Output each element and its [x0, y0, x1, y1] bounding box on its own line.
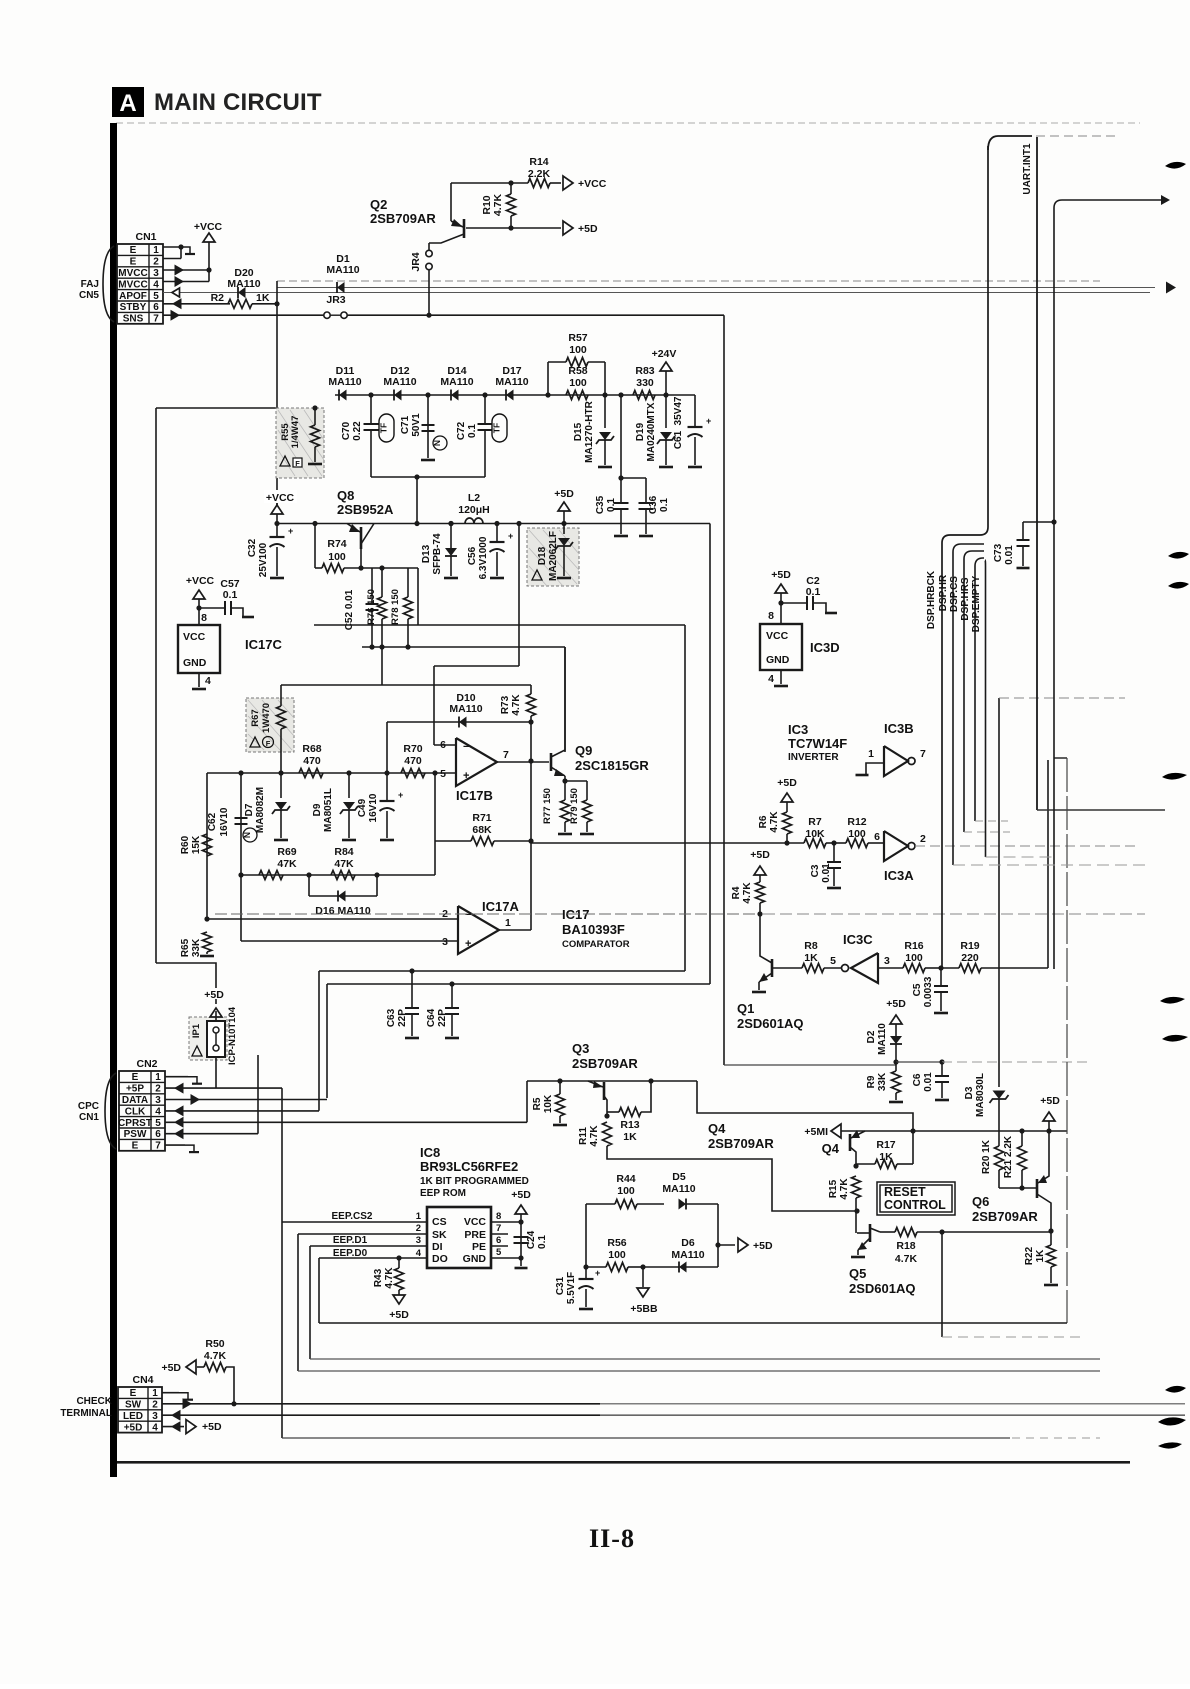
wire EEP.CS2 riser: [281, 1088, 283, 1438]
svg-text:4.7K: 4.7K: [511, 694, 522, 716]
marking TF C72: [492, 414, 507, 442]
power +5D right of D6: [718, 1244, 735, 1246]
svg-text:C31: C31: [555, 1276, 566, 1295]
svg-text:C70: C70: [341, 421, 352, 440]
svg-text:+: +: [595, 1268, 600, 1278]
svg-text:2: 2: [920, 833, 926, 845]
wire IC17 to Q1 base line: [318, 970, 320, 972]
svg-text:R17: R17: [876, 1139, 895, 1151]
svg-text:IC3D: IC3D: [810, 640, 840, 655]
svg-text:MA110: MA110: [326, 264, 359, 276]
power +5D arrow at Q2: [563, 221, 573, 235]
svg-text:C62: C62: [207, 812, 218, 831]
svg-text:CN1: CN1: [79, 1112, 99, 1123]
svg-text:EEP.D1: EEP.D1: [333, 1235, 368, 1246]
svg-text:DSP.EMPTY: DSP.EMPTY: [971, 575, 982, 632]
svg-text:3: 3: [416, 1235, 421, 1246]
svg-text:IC17B: IC17B: [456, 788, 493, 803]
svg-text:1: 1: [416, 1211, 422, 1222]
svg-text:MA8051L: MA8051L: [323, 788, 334, 832]
wire Q1 base line: [772, 967, 802, 969]
svg-text:R22: R22: [1024, 1246, 1035, 1265]
wire pin6 line: [434, 744, 456, 746]
svg-text:2: 2: [155, 1084, 161, 1095]
connector CN4: [118, 1387, 162, 1433]
bus DSP.HR: [953, 544, 984, 865]
wire R18 node down: [941, 1232, 943, 1337]
svg-text:R9: R9: [866, 1075, 877, 1088]
wire DO riser: [318, 1258, 320, 1323]
svg-text:3: 3: [442, 936, 448, 948]
svg-text:2SB709AR: 2SB709AR: [708, 1136, 774, 1151]
svg-text:R84: R84: [334, 846, 353, 858]
wire R19 riser: [1047, 760, 1049, 968]
svg-text:D6: D6: [681, 1237, 695, 1249]
wire UART.INT1 vertical: [1036, 137, 1038, 810]
wire Q8 main rail: [277, 523, 710, 525]
svg-text:R6: R6: [758, 815, 769, 828]
wire CN2 pin2 +5P: [215, 1057, 217, 1088]
svg-text:1: 1: [505, 917, 511, 929]
svg-text:PE: PE: [472, 1241, 486, 1253]
svg-text:0.1: 0.1: [659, 498, 670, 512]
inverter IC3A: [884, 831, 908, 861]
svg-text:EEP ROM: EEP ROM: [420, 1188, 466, 1199]
svg-text:R77 150: R77 150: [542, 788, 553, 824]
svg-text:+5D: +5D: [202, 1421, 222, 1433]
svg-text:C32: C32: [247, 538, 258, 557]
svg-text:R18: R18: [896, 1240, 915, 1252]
svg-text:+5P: +5P: [126, 1084, 144, 1095]
wire CN2 pin3 DATA: [165, 1099, 327, 1101]
svg-text:2SD601AQ: 2SD601AQ: [849, 1281, 915, 1296]
svg-text:L2: L2: [468, 492, 480, 504]
svg-text:DSP.CS: DSP.CS: [949, 576, 960, 612]
wire INT riser 2: [1054, 200, 1165, 969]
svg-text:1: 1: [152, 1388, 158, 1399]
node IC17A pin2: [204, 916, 209, 921]
svg-text:2: 2: [153, 257, 159, 268]
wire CPRST riser to Q3 rail: [526, 1081, 528, 1122]
diode D20: [238, 287, 246, 298]
wire DO long line: [319, 1322, 1067, 1324]
wire C62 vertical: [240, 773, 242, 875]
svg-text:R5: R5: [532, 1097, 543, 1110]
svg-text:SK: SK: [432, 1229, 447, 1241]
svg-text:4: 4: [205, 675, 211, 687]
svg-text:5: 5: [830, 955, 836, 967]
svg-text:50V1: 50V1: [411, 413, 422, 437]
svg-text:+VCC: +VCC: [266, 492, 295, 504]
svg-text:2SD601AQ: 2SD601AQ: [737, 1016, 803, 1031]
svg-text:COMPARATOR: COMPARATOR: [562, 939, 630, 950]
svg-text:10K: 10K: [543, 1094, 554, 1113]
svg-text:CS: CS: [432, 1216, 447, 1228]
svg-text:R73: R73: [500, 695, 511, 714]
svg-text:APOF: APOF: [119, 291, 147, 302]
svg-text:IC3A: IC3A: [884, 868, 914, 883]
wire inner box right edge: [684, 625, 686, 971]
svg-text:C36: C36: [648, 495, 659, 514]
wire CPRST dashed long line: [215, 913, 757, 915]
svg-text:10K: 10K: [805, 828, 825, 840]
svg-text:C24: C24: [526, 1230, 537, 1249]
wire SNS vertical to box: [723, 315, 725, 1065]
wire box left vertical: [155, 408, 157, 963]
svg-text:+24V: +24V: [652, 348, 677, 360]
svg-text:4: 4: [768, 673, 774, 685]
wire Q6 collector to R22 node: [1050, 1231, 1052, 1232]
resistor R67 1W470 protected: [246, 698, 294, 752]
svg-text:R8: R8: [804, 940, 818, 952]
scan mark 5: [1160, 997, 1185, 1004]
svg-text:TF: TF: [379, 423, 389, 433]
wire outer box right edge: [709, 524, 711, 985]
svg-text:DI: DI: [432, 1241, 443, 1253]
svg-text:100: 100: [328, 551, 346, 563]
svg-text:+5D: +5D: [777, 777, 797, 789]
svg-text:C71: C71: [400, 415, 411, 434]
svg-text:+5D: +5D: [771, 569, 791, 581]
resistor R78 150: [407, 568, 409, 597]
svg-text:CN1: CN1: [135, 231, 156, 243]
svg-text:MA8030L: MA8030L: [975, 1073, 986, 1117]
svg-text:D15: D15: [573, 422, 584, 441]
wire box right edge vertical: [1066, 758, 1068, 1323]
svg-text:R2: R2: [211, 292, 225, 304]
wire R69 R84 rail: [241, 874, 435, 876]
svg-text:6.3V1000: 6.3V1000: [478, 536, 489, 579]
wire C52 R76 R78 bottom rail: [362, 646, 565, 648]
wire CN1 pin4 MVCC: [163, 281, 209, 283]
svg-text:+VCC: +VCC: [194, 221, 223, 233]
wire box bottom left to IP1 feed: [156, 963, 216, 1004]
svg-text:E: E: [132, 1141, 139, 1152]
svg-text:1K: 1K: [256, 292, 270, 304]
svg-text:MA110: MA110: [662, 1183, 695, 1195]
svg-text:R43: R43: [373, 1268, 384, 1287]
svg-text:R14: R14: [529, 156, 548, 168]
svg-text:CPRST: CPRST: [118, 1118, 152, 1129]
pin 4 IC17C: [198, 673, 200, 687]
power +VCC arrow: [563, 176, 573, 190]
svg-text:R78 150: R78 150: [390, 589, 401, 625]
svg-text:100: 100: [569, 377, 587, 389]
svg-text:0.01: 0.01: [923, 1072, 934, 1092]
svg-text:+5D: +5D: [753, 1240, 773, 1252]
svg-text:DSP.HRS: DSP.HRS: [960, 577, 971, 620]
left page border bar: [110, 123, 117, 1477]
svg-text:C3: C3: [810, 864, 821, 877]
svg-text:2: 2: [152, 1400, 158, 1411]
svg-text:+5D: +5D: [554, 488, 574, 500]
svg-text:C35: C35: [595, 495, 606, 514]
svg-text:MA110: MA110: [877, 1023, 888, 1055]
svg-text:Q4: Q4: [822, 1141, 840, 1156]
svg-text:PSW: PSW: [124, 1129, 147, 1140]
svg-text:0.22: 0.22: [352, 421, 363, 441]
svg-text:D7: D7: [244, 803, 255, 816]
scan mark 2: [1168, 552, 1189, 559]
wire UART.INT1 bottom out: [1037, 809, 1165, 811]
wire DSP.EMPTY out: [986, 856, 1055, 858]
svg-text:R57: R57: [568, 332, 587, 344]
svg-text:6: 6: [155, 1129, 161, 1140]
svg-text:R50: R50: [205, 1338, 224, 1350]
svg-text:470: 470: [303, 755, 321, 767]
arrow right edge D1 net: [1166, 282, 1176, 294]
wire C35 C36 branch: [621, 477, 646, 479]
svg-text:SW: SW: [125, 1400, 142, 1411]
svg-text:VCC: VCC: [464, 1216, 487, 1228]
svg-text:CN5: CN5: [79, 290, 99, 301]
svg-text:Q9: Q9: [575, 743, 592, 758]
svg-text:+: +: [288, 526, 293, 536]
svg-text:MA110: MA110: [227, 278, 260, 290]
svg-text:0.1: 0.1: [537, 1235, 548, 1249]
svg-text:MA110: MA110: [383, 376, 416, 388]
svg-text:1: 1: [868, 748, 874, 760]
connector CN2: [119, 1071, 165, 1151]
svg-text:BR93LC56RFE2: BR93LC56RFE2: [420, 1159, 518, 1174]
svg-text:7: 7: [153, 314, 159, 325]
svg-text:E: E: [130, 245, 137, 256]
svg-text:+5D: +5D: [511, 1189, 531, 1201]
svg-text:1K BIT PROGRAMMED: 1K BIT PROGRAMMED: [420, 1176, 529, 1187]
svg-text:INVERTER: INVERTER: [788, 752, 839, 763]
svg-text:R76 150: R76 150: [366, 589, 377, 625]
svg-text:JR4: JR4: [410, 252, 422, 271]
wire CN1 pin3 MVCC: [163, 269, 209, 271]
svg-text:+: +: [706, 416, 711, 426]
diode D16 MA110 loop: [308, 875, 310, 896]
svg-text:8: 8: [496, 1211, 501, 1222]
wire CN4 pin2 SW: [162, 1403, 600, 1405]
svg-text:25V100: 25V100: [258, 542, 269, 577]
svg-text:R68: R68: [302, 743, 321, 755]
svg-text:PRE: PRE: [464, 1229, 486, 1241]
svg-text:470: 470: [404, 755, 422, 767]
node C72: [482, 392, 487, 397]
diode D1: [337, 282, 345, 293]
wire DSP.CS out: [964, 831, 1010, 833]
svg-text:0.1: 0.1: [223, 589, 238, 601]
svg-text:CLK: CLK: [125, 1106, 146, 1117]
svg-text:N: N: [242, 832, 252, 838]
svg-text:R83: R83: [635, 365, 654, 377]
resistor R55 1/4W47 protected: [276, 408, 324, 478]
svg-text:+5D: +5D: [204, 989, 224, 1001]
wire outer box bottom edge: [327, 983, 710, 985]
svg-text:+: +: [465, 938, 471, 950]
svg-text:R16: R16: [904, 940, 923, 952]
svg-text:4: 4: [155, 1106, 161, 1117]
svg-text:JR3: JR3: [326, 294, 345, 306]
wire CN2 pin5 CPRST: [165, 1121, 527, 1123]
svg-text:7: 7: [503, 749, 509, 761]
svg-text:LED: LED: [123, 1411, 143, 1422]
diode D12: [394, 390, 402, 401]
svg-text:D16 MA110: D16 MA110: [315, 905, 371, 917]
svg-text:R79 150: R79 150: [569, 788, 580, 824]
ic IC8 box: [427, 1207, 491, 1268]
svg-text:MA110: MA110: [440, 376, 473, 388]
wire CN1 pin2 E: [163, 258, 181, 260]
wire Q3 line A to Q4: [697, 1081, 913, 1164]
wire Q3 rail: [527, 1080, 697, 1082]
svg-text:C56: C56: [467, 546, 478, 565]
svg-text:220: 220: [961, 952, 979, 964]
svg-text:2SB709AR: 2SB709AR: [572, 1056, 638, 1071]
svg-text:4.7K: 4.7K: [742, 882, 753, 904]
svg-text:GND: GND: [766, 654, 790, 666]
node C70: [368, 392, 373, 397]
wire inner box bottom edge: [319, 970, 685, 972]
wire CN1 pin1 E: [163, 246, 181, 248]
svg-text:2SB709AR: 2SB709AR: [972, 1209, 1038, 1224]
diode D11: [339, 390, 347, 401]
svg-text:+5D: +5D: [750, 849, 770, 861]
svg-text:IC17C: IC17C: [245, 637, 282, 652]
svg-text:IC17A: IC17A: [482, 899, 519, 914]
svg-text:4.7K: 4.7K: [769, 811, 780, 833]
svg-text:CPC: CPC: [78, 1101, 99, 1112]
bus DSP.HRBCK: [942, 146, 988, 969]
svg-text:CN2: CN2: [136, 1058, 157, 1070]
scan mark 4: [1162, 773, 1187, 780]
svg-text:UART.INT1: UART.INT1: [1022, 143, 1033, 195]
svg-text:1K: 1K: [1035, 1249, 1046, 1263]
wire R84 to R71 node: [434, 841, 436, 875]
svg-text:R60: R60: [180, 835, 191, 854]
svg-text:MA110: MA110: [671, 1249, 704, 1261]
svg-text:+5BB: +5BB: [630, 1303, 658, 1315]
node C35 branch: [618, 392, 623, 397]
svg-text:6: 6: [496, 1235, 501, 1246]
svg-text:CONTROL: CONTROL: [884, 1198, 946, 1212]
svg-text:DSP.HRBCK: DSP.HRBCK: [926, 570, 937, 629]
svg-text:D18: D18: [537, 546, 548, 565]
svg-text:15K: 15K: [191, 835, 202, 854]
svg-text:8: 8: [201, 612, 207, 624]
wire +5MI rail: [839, 1130, 1067, 1132]
svg-text:4.7K: 4.7K: [839, 1178, 850, 1200]
svg-text:1: 1: [155, 1072, 161, 1083]
svg-text:5: 5: [440, 768, 446, 780]
svg-text:Q3: Q3: [572, 1041, 589, 1056]
svg-text:1/4W47: 1/4W47: [290, 416, 301, 449]
svg-text:D5: D5: [672, 1171, 686, 1183]
svg-text:R15: R15: [828, 1179, 839, 1198]
svg-text:Q5: Q5: [849, 1266, 866, 1281]
wire rail to pin6 feed: [518, 524, 520, 667]
svg-text:1: 1: [153, 245, 159, 256]
wire inner box top edge: [314, 624, 685, 626]
svg-text:C49: C49: [357, 798, 368, 817]
svg-text:3: 3: [155, 1095, 161, 1106]
svg-text:2.2K: 2.2K: [528, 168, 551, 180]
svg-text:CN4: CN4: [132, 1374, 153, 1386]
svg-text:330: 330: [636, 377, 654, 389]
arrow right edge INT: [1161, 195, 1170, 205]
svg-text:DSP.HR: DSP.HR: [938, 574, 949, 611]
svg-text:−: −: [463, 741, 469, 753]
svg-text:120μH: 120μH: [458, 504, 490, 516]
svg-text:16V10: 16V10: [368, 793, 379, 822]
reset control box: [877, 1182, 955, 1215]
svg-text:+5D: +5D: [578, 223, 598, 235]
wire R67 top rail: [281, 684, 531, 686]
wire IC17A pin2: [207, 918, 458, 920]
svg-text:2: 2: [416, 1223, 421, 1234]
svg-text:II-8: II-8: [589, 1524, 635, 1553]
svg-text:C63: C63: [386, 1008, 397, 1027]
wire CN4 pin3 LED: [162, 1414, 600, 1416]
wire CN2 pin6 PSW: [165, 1133, 258, 1135]
svg-text:47K: 47K: [334, 858, 354, 870]
svg-text:+VCC: +VCC: [186, 575, 215, 587]
svg-text:MVCC: MVCC: [118, 268, 147, 279]
svg-text:VCC: VCC: [183, 631, 206, 643]
svg-text:IC3C: IC3C: [843, 932, 873, 947]
svg-text:+5D: +5D: [1040, 1095, 1060, 1107]
diode D17: [506, 390, 514, 401]
svg-text:+5D: +5D: [124, 1422, 143, 1433]
svg-text:R71: R71: [472, 812, 491, 824]
svg-text:1W470: 1W470: [261, 703, 272, 733]
bottom border line: [117, 1461, 1130, 1464]
scan mark 9: [1158, 1442, 1182, 1448]
svg-text:SFPB-74: SFPB-74: [432, 533, 443, 575]
svg-text:6: 6: [153, 302, 159, 313]
svg-text:4: 4: [152, 1422, 158, 1433]
svg-text:2SC1815GR: 2SC1815GR: [575, 758, 649, 773]
svg-text:+5D: +5D: [161, 1362, 181, 1374]
node C71: [425, 392, 430, 397]
svg-text:GND: GND: [183, 657, 207, 669]
marking N C62: [243, 828, 257, 842]
wire left sense vertical: [206, 773, 208, 919]
svg-text:R58: R58: [568, 365, 587, 377]
wire DSP.HR out: [953, 864, 1150, 866]
wire main diode rail: [335, 394, 695, 396]
wire CN2 pin1 E: [165, 1076, 188, 1078]
wire SNS gray line to R9 node: [896, 1061, 942, 1063]
wire SK long line: [298, 1370, 1100, 1372]
svg-text:68K: 68K: [472, 824, 492, 836]
svg-text:EEP.CS2: EEP.CS2: [332, 1211, 373, 1222]
wire Q2 base to +5D: [466, 227, 561, 229]
svg-text:C72: C72: [456, 421, 467, 440]
scan mark 7: [1165, 1386, 1186, 1393]
svg-text:7: 7: [920, 748, 926, 760]
wire IC17A pin3: [240, 875, 242, 941]
wire CN1 pin5 APOF line: [163, 292, 1150, 294]
wire Q2 top rail: [451, 182, 511, 184]
svg-text:MA8082M: MA8082M: [255, 787, 266, 833]
svg-text:4.7K: 4.7K: [895, 1253, 918, 1265]
svg-text:RESET: RESET: [884, 1185, 926, 1199]
svg-text:22P: 22P: [437, 1009, 448, 1027]
wire D10 anode feed: [386, 722, 388, 773]
wire CS2 long line: [282, 1437, 1010, 1439]
pin 4 IC3D: [780, 670, 782, 684]
svg-text:TC7W14F: TC7W14F: [788, 736, 847, 751]
svg-text:+: +: [398, 790, 403, 800]
svg-text:MA110: MA110: [495, 376, 528, 388]
wire IC3A output: [915, 845, 1140, 847]
svg-text:+5D: +5D: [886, 998, 906, 1010]
